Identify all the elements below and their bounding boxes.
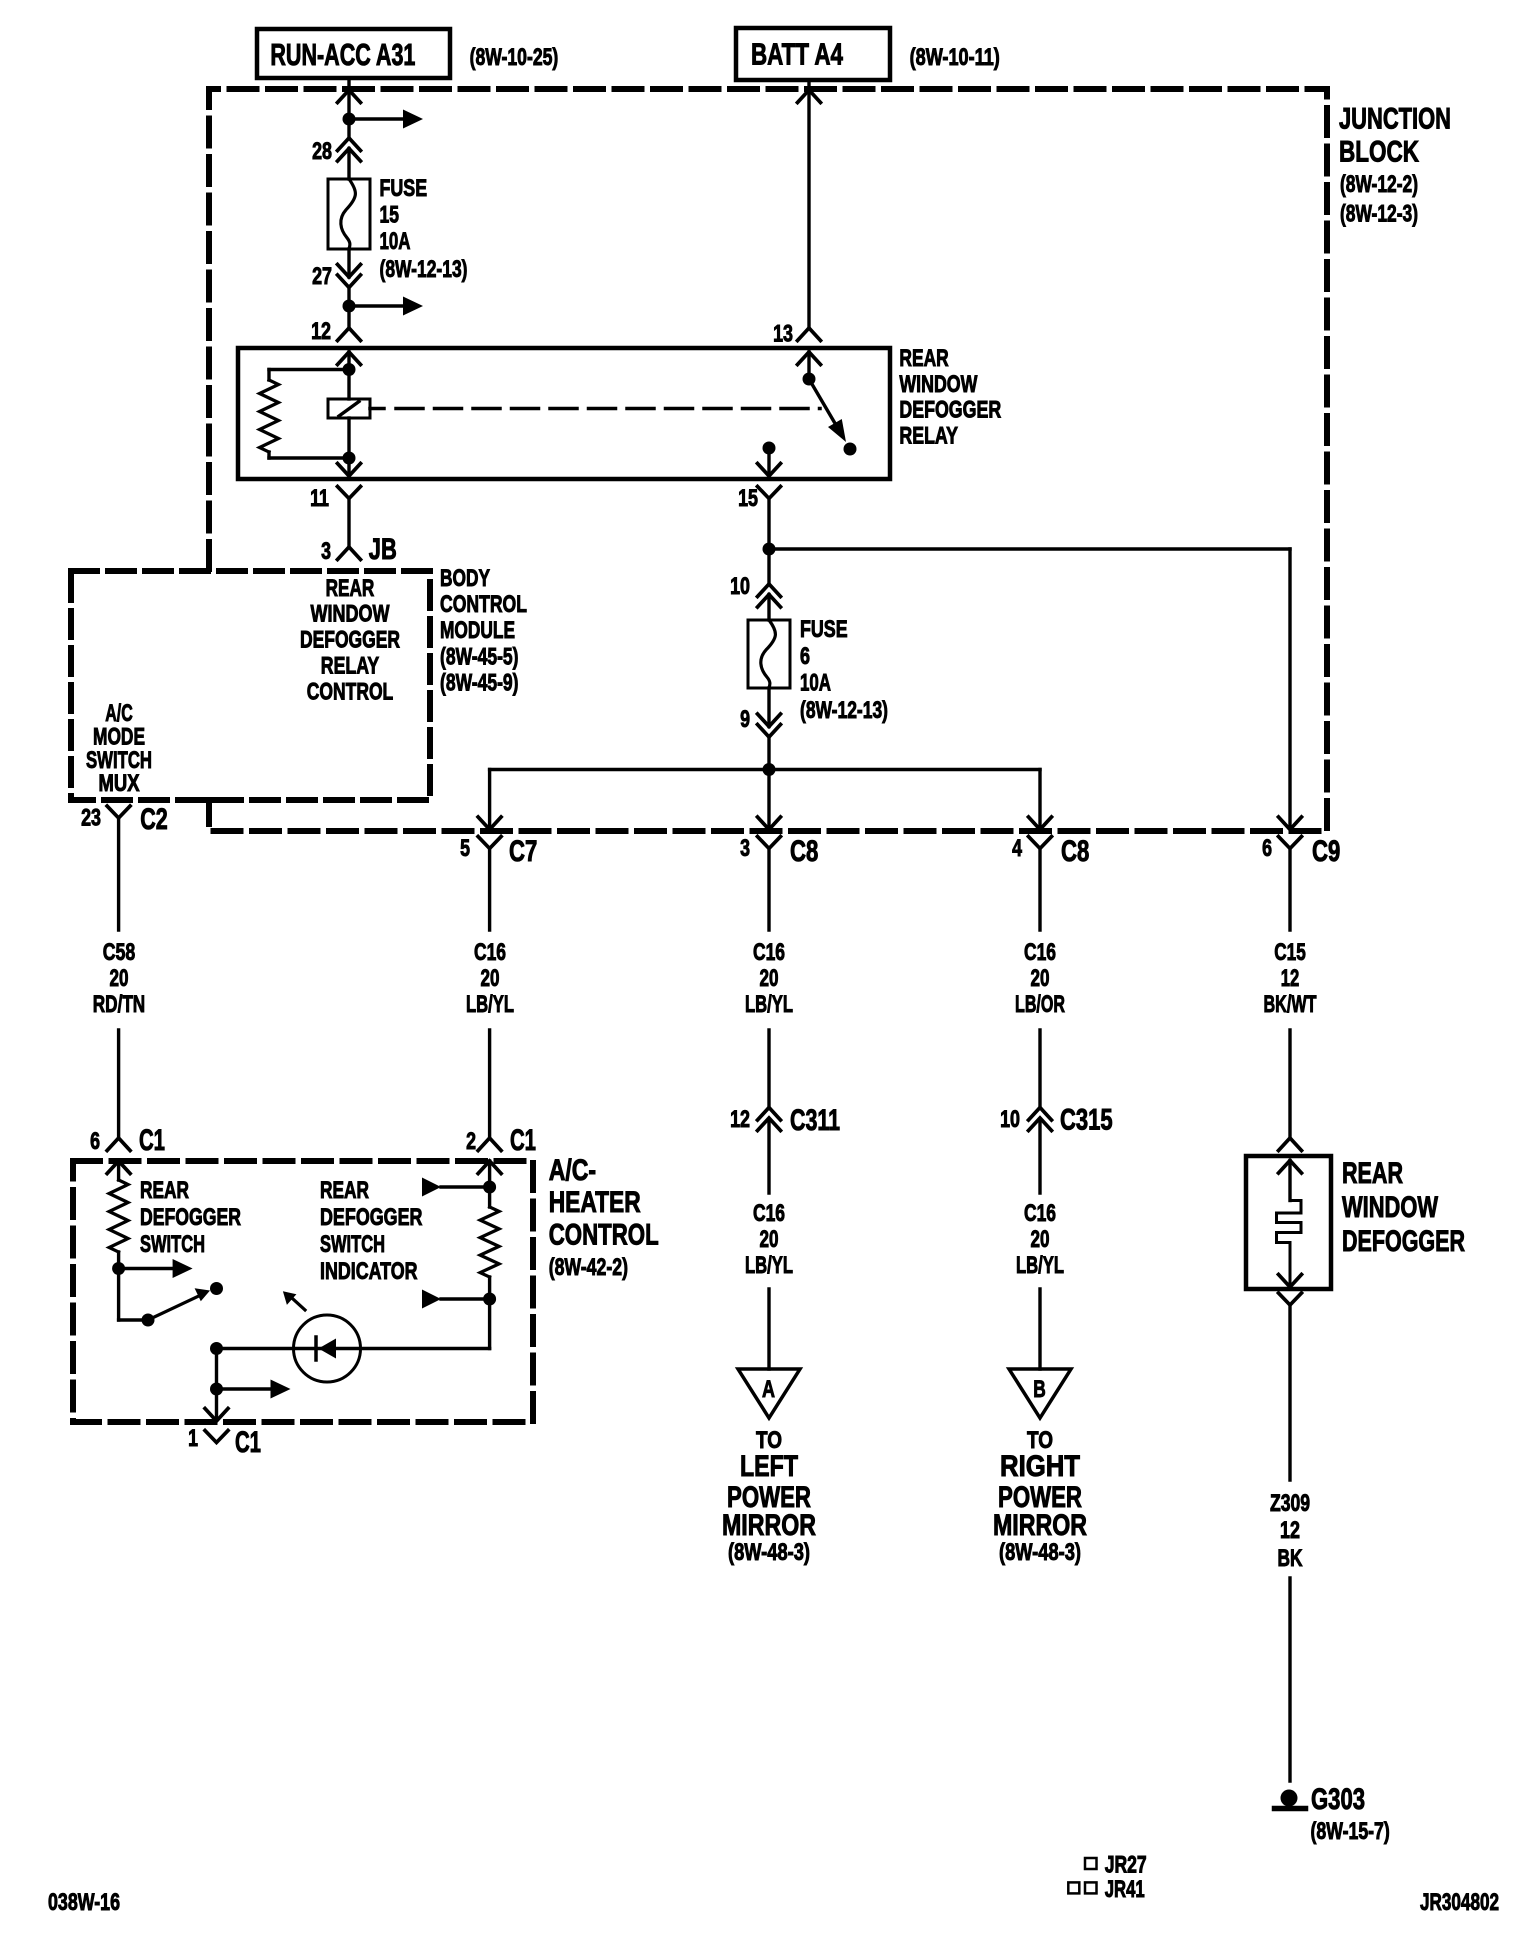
node return splice <box>210 1380 291 1399</box>
wire C2 to A/C heater control <box>117 818 120 1138</box>
relay label <box>899 345 1001 450</box>
svg-text:DEFOGGER: DEFOGGER <box>300 627 400 654</box>
svg-text:20: 20 <box>1031 965 1050 992</box>
pin 2 C1 (male pin) <box>478 1138 501 1151</box>
svg-text:JB: JB <box>369 533 397 566</box>
svg-text:RUN-ACC A31: RUN-ACC A31 <box>270 37 415 72</box>
svg-text:12: 12 <box>311 318 331 345</box>
svg-text:C58: C58 <box>103 939 136 966</box>
svg-text:LB/YL: LB/YL <box>1016 1252 1064 1279</box>
svg-text:A: A <box>762 1376 775 1403</box>
pin 6 C1 (male pin) <box>107 1138 130 1151</box>
svg-text:12: 12 <box>1281 965 1300 992</box>
node relay switch common <box>803 373 816 386</box>
reference (8W-10-25) <box>470 44 559 71</box>
svg-text:C9: C9 <box>1312 835 1340 868</box>
connector C311 (double chevron) <box>758 1108 781 1131</box>
legend JR41 <box>1068 1876 1144 1903</box>
arrow into C7 <box>478 817 501 830</box>
wire fuse 6 to splice <box>767 688 770 827</box>
pin 6 label (C9) <box>1262 835 1272 862</box>
wire relay output to pin 15 <box>767 448 770 476</box>
svg-text:C16: C16 <box>1024 939 1056 966</box>
arrow out of relay pin 15 <box>758 464 781 477</box>
svg-text:20: 20 <box>760 965 779 992</box>
svg-text:C311: C311 <box>790 1104 840 1137</box>
svg-text:13: 13 <box>773 321 793 348</box>
pin 3 label (C8) <box>740 835 750 862</box>
connector name C8 right <box>1061 835 1089 868</box>
svg-text:C16: C16 <box>1024 1200 1056 1227</box>
wire indicator node to LED <box>217 1299 490 1349</box>
rear defogger switch label <box>140 1177 241 1258</box>
wire label C16 20 LB/YL (left mirror) <box>745 1200 793 1279</box>
node LED return <box>210 1342 223 1355</box>
connector 9 (double chevron) <box>758 714 781 737</box>
svg-text:LB/YL: LB/YL <box>745 991 793 1018</box>
node relay coil top <box>343 363 356 376</box>
svg-text:6: 6 <box>800 643 810 670</box>
relay actuation dashed link <box>370 407 820 411</box>
defogger switch blade <box>148 1288 210 1320</box>
pin 12 label <box>311 318 331 345</box>
svg-text:LB/OR: LB/OR <box>1015 991 1065 1018</box>
BCM relay control label <box>300 575 400 706</box>
pin of defogger (male pin) <box>1279 1138 1302 1151</box>
fuse 15 10A <box>328 179 370 249</box>
svg-text:(8W-42-2): (8W-42-2) <box>549 1254 628 1281</box>
reference (8W-10-11) <box>910 44 1000 71</box>
arrow into A/C box pin 6 <box>107 1161 130 1174</box>
BCM name label <box>440 565 527 697</box>
defogger bottom connector (female) <box>1279 1293 1302 1305</box>
pin 15 connector (female) <box>758 487 781 499</box>
svg-text:(8W-12-13): (8W-12-13) <box>800 697 888 724</box>
power feed box BATT A4 <box>736 28 890 80</box>
svg-text:JR41: JR41 <box>1105 1876 1145 1903</box>
ground reference (8W-15-7) <box>1311 1818 1390 1845</box>
svg-text:RELAY: RELAY <box>321 653 379 680</box>
wire pin 13 to switch common <box>807 352 810 379</box>
svg-text:27: 27 <box>312 263 332 290</box>
arrow into RUN-ACC A31 <box>338 90 361 103</box>
svg-text:C8: C8 <box>790 835 818 868</box>
svg-text:10: 10 <box>1000 1106 1020 1133</box>
svg-text:C16: C16 <box>474 939 506 966</box>
wire splice to rear defogger branch <box>769 549 1290 827</box>
svg-text:MIRROR: MIRROR <box>993 1509 1087 1542</box>
svg-text:DEFOGGER: DEFOGGER <box>1342 1225 1465 1258</box>
arrow out of relay pin 11 <box>338 464 361 477</box>
connector 6 C9 (female) <box>1279 837 1302 849</box>
svg-text:REAR: REAR <box>326 575 375 602</box>
body control module box (dashed) <box>71 571 430 800</box>
wire label C16 20 LB/YL (C7) <box>466 939 514 1018</box>
svg-text:MUX: MUX <box>99 770 140 797</box>
pin 10 label <box>730 573 750 600</box>
node relay coil bottom <box>343 452 356 465</box>
svg-text:LEFT: LEFT <box>740 1450 798 1483</box>
svg-text:FUSE: FUSE <box>800 616 848 643</box>
svg-text:LB/YL: LB/YL <box>466 991 514 1018</box>
wire C8-4 to C315 <box>1038 849 1041 1108</box>
off-page connector A <box>738 1369 800 1418</box>
pin 11 connector (female) <box>338 487 361 499</box>
svg-text:CONTROL: CONTROL <box>440 591 527 618</box>
fuse 15 label <box>380 175 468 283</box>
connector 3 C8 (female) <box>758 837 781 849</box>
svg-text:DEFOGGER: DEFOGGER <box>899 397 1001 424</box>
rear defogger switch indicator label <box>320 1177 423 1285</box>
svg-text:C7: C7 <box>509 835 537 868</box>
legend JR27 <box>1085 1852 1147 1879</box>
svg-text:15: 15 <box>380 202 400 229</box>
svg-text:MODULE: MODULE <box>440 617 515 644</box>
arrow into BATT A4 <box>798 90 821 103</box>
pin 13 of relay (male pin) <box>798 328 821 341</box>
wire pin6 to defogger switch <box>117 1161 120 1180</box>
svg-text:C15: C15 <box>1274 939 1306 966</box>
connector 5 C7 (female) <box>478 837 501 849</box>
node switch pivot <box>142 1314 155 1327</box>
svg-text:C2: C2 <box>140 803 168 836</box>
connector name C1 (pin6) <box>139 1124 165 1157</box>
pin 5 label <box>460 835 470 862</box>
svg-text:6: 6 <box>90 1128 100 1155</box>
wire to relay resistor <box>269 370 349 381</box>
wire label C15 12 BK/WT <box>1264 939 1317 1018</box>
svg-text:(8W-10-25): (8W-10-25) <box>470 44 559 71</box>
pin 1 C1 (female) <box>205 1431 228 1443</box>
arrow out of defogger <box>1279 1275 1302 1288</box>
svg-text:WINDOW: WINDOW <box>1342 1191 1438 1224</box>
node indicator bottom <box>483 1293 496 1306</box>
svg-text:REAR: REAR <box>899 345 949 372</box>
arrow into relay pin 12 <box>338 352 361 365</box>
wire label C16 20 LB/YL (right mirror) <box>1016 1200 1064 1279</box>
svg-text:(8W-12-13): (8W-12-13) <box>380 256 468 283</box>
svg-text:B: B <box>1033 1376 1046 1403</box>
svg-text:(8W-12-3): (8W-12-3) <box>1340 201 1418 228</box>
pin 15 label <box>738 485 758 512</box>
relay coil <box>328 370 370 459</box>
off-page connector B <box>1009 1369 1071 1418</box>
wire into defogger grid <box>1288 1161 1291 1201</box>
wire resistor to indicator node <box>488 1277 491 1299</box>
svg-text:9: 9 <box>740 706 750 733</box>
relay switch blade <box>809 379 846 442</box>
svg-text:G303: G303 <box>1311 1783 1365 1816</box>
pin 13 label <box>773 321 793 348</box>
svg-text:INDICATOR: INDICATOR <box>320 1258 418 1285</box>
rear window defogger relay box <box>238 348 890 479</box>
svg-text:(8W-48-3): (8W-48-3) <box>728 1539 810 1566</box>
pin 1 label (C1) <box>188 1425 198 1452</box>
wire switch node down <box>119 1269 148 1321</box>
svg-text:3: 3 <box>321 538 331 565</box>
pin 23 label <box>81 805 101 832</box>
svg-text:(8W-45-5): (8W-45-5) <box>440 644 519 671</box>
svg-text:BK/WT: BK/WT <box>1264 991 1317 1018</box>
ground name G303 <box>1311 1783 1365 1816</box>
rear defogger switch resistor <box>109 1180 128 1252</box>
connector 3 JB (male pin) <box>338 547 361 560</box>
svg-text:BODY: BODY <box>440 565 490 592</box>
svg-text:A/C-: A/C- <box>549 1154 596 1187</box>
fuse 6 10A <box>748 620 790 688</box>
wire coil to pin 11 <box>347 458 350 476</box>
svg-text:038W-16: 038W-16 <box>48 1889 120 1916</box>
svg-text:20: 20 <box>481 965 500 992</box>
svg-text:11: 11 <box>310 485 329 512</box>
svg-text:FUSE: FUSE <box>380 175 428 202</box>
svg-text:20: 20 <box>760 1226 779 1253</box>
svg-text:BLOCK: BLOCK <box>1339 136 1419 169</box>
node splice above relay <box>343 297 424 316</box>
svg-text:C315: C315 <box>1060 1104 1113 1137</box>
node distribution splice <box>763 763 776 776</box>
wire RUN-ACC A31 to fuse 15 <box>347 78 350 179</box>
junction block border (dashed) <box>209 89 1327 831</box>
svg-text:REAR: REAR <box>1342 1157 1403 1190</box>
connector 28 (double chevron) <box>338 138 361 161</box>
wire distribution bus <box>490 768 1040 771</box>
rear window defogger name <box>1342 1157 1465 1258</box>
svg-text:5: 5 <box>460 835 470 862</box>
drawing number JR304802 <box>1420 1889 1499 1916</box>
svg-text:SWITCH: SWITCH <box>140 1231 205 1258</box>
wire LED return down <box>215 1349 218 1390</box>
wire bus to C7 <box>488 770 491 828</box>
to right power mirror label <box>993 1427 1087 1566</box>
wire C315 to right mirror <box>1038 1120 1041 1369</box>
svg-text:REAR: REAR <box>320 1177 369 1204</box>
pin 6 label (C1) <box>90 1128 100 1155</box>
svg-text:REAR: REAR <box>140 1177 189 1204</box>
svg-text:DEFOGGER: DEFOGGER <box>320 1204 423 1231</box>
A/C heater control box (dashed) <box>73 1161 533 1422</box>
pin 28 label <box>312 138 332 165</box>
svg-text:12: 12 <box>730 1106 750 1133</box>
defogger heating grid <box>1277 1201 1302 1286</box>
connector name C9 <box>1312 835 1340 868</box>
wire fuse 15 to relay <box>347 249 350 328</box>
node splice below RUN-ACC <box>343 110 424 129</box>
svg-text:WINDOW: WINDOW <box>899 371 978 398</box>
svg-text:CONTROL: CONTROL <box>549 1219 659 1252</box>
indicator feed arrow top <box>422 1178 490 1197</box>
connector 10 (double chevron) <box>758 584 781 607</box>
junction block label <box>1339 103 1451 228</box>
wire C7 to A/C heater control <box>488 849 491 1139</box>
arrow out of A/C box pin 1 <box>205 1409 228 1422</box>
indicator feed arrow bottom <box>422 1290 490 1309</box>
wire relay pin12 to coil node <box>347 352 350 370</box>
wire C9 to rear window defogger <box>1288 849 1291 1139</box>
svg-text:BK: BK <box>1278 1545 1303 1572</box>
wire bus to C8 pin 4 <box>1038 770 1041 828</box>
connector name C8 left <box>790 835 818 868</box>
connector 4 C8 (female) <box>1029 837 1052 849</box>
svg-text:JR27: JR27 <box>1105 1852 1147 1879</box>
wire pin2 to indicator resistor <box>488 1161 491 1207</box>
connector name C2 <box>140 803 168 836</box>
node splice to C9 branch <box>763 543 776 556</box>
wire C8-3 to C311 <box>767 849 770 1108</box>
connector C315 (double chevron) <box>1029 1108 1052 1131</box>
svg-text:RD/TN: RD/TN <box>93 991 145 1018</box>
node defogger switch <box>112 1259 193 1278</box>
A/C mode switch mux label <box>86 700 152 797</box>
svg-text:HEATER: HEATER <box>549 1186 641 1219</box>
wire pin 15 to fuse 6 <box>767 499 770 621</box>
pin 27 label <box>312 263 332 290</box>
relay suppression resistor <box>260 380 279 452</box>
connector 23 C2 (female) <box>107 806 130 818</box>
svg-text:RIGHT: RIGHT <box>1000 1450 1080 1483</box>
svg-text:3: 3 <box>740 835 750 862</box>
sheet number 038W-16 <box>48 1889 120 1916</box>
svg-text:10A: 10A <box>800 670 831 697</box>
rear window defogger box <box>1246 1156 1331 1289</box>
svg-text:10: 10 <box>730 573 750 600</box>
svg-text:(8W-15-7): (8W-15-7) <box>1311 1818 1390 1845</box>
LED indicator <box>294 1315 361 1382</box>
svg-text:10A: 10A <box>380 228 411 255</box>
pin 12 of relay (male pin) <box>338 328 361 341</box>
svg-text:C16: C16 <box>753 939 785 966</box>
arrow into C9 pin 6 <box>1279 817 1302 830</box>
connector name JB <box>369 533 397 566</box>
wire label Z309 12 BK <box>1270 1490 1310 1572</box>
connector 27 (double chevron) <box>338 265 361 288</box>
connector name C1 (pin1) <box>235 1426 261 1459</box>
svg-text:(8W-48-3): (8W-48-3) <box>999 1539 1081 1566</box>
pin 11 label <box>310 485 329 512</box>
wire return to pin 1 <box>215 1389 218 1420</box>
svg-text:RELAY: RELAY <box>899 423 958 450</box>
wire resistor to switch node <box>117 1252 120 1269</box>
svg-text:LB/YL: LB/YL <box>745 1252 793 1279</box>
wire relay pin 11 to BCM pin 3 <box>347 499 350 548</box>
wire label C16 20 LB/YL (C8 pin3) <box>745 939 793 1018</box>
node indicator top <box>483 1181 496 1194</box>
svg-text:23: 23 <box>81 805 101 832</box>
svg-text:15: 15 <box>738 485 758 512</box>
arrow into C8 pin 3 <box>758 817 781 830</box>
ground G303 <box>1275 1790 1306 1809</box>
node relay output <box>763 442 776 455</box>
svg-text:CONTROL: CONTROL <box>307 679 394 706</box>
node relay switch NO contact <box>844 443 857 456</box>
svg-text:DEFOGGER: DEFOGGER <box>140 1204 241 1231</box>
svg-text:C16: C16 <box>753 1200 785 1227</box>
svg-text:SWITCH: SWITCH <box>320 1231 385 1258</box>
to left power mirror label <box>722 1427 816 1566</box>
arrow into A/C box pin 2 <box>478 1161 501 1174</box>
svg-text:JR304802: JR304802 <box>1420 1889 1499 1916</box>
A/C heater control name <box>549 1154 659 1281</box>
arrow into C8 pin 4 <box>1029 817 1052 830</box>
pin 4 label (C8) <box>1012 835 1022 862</box>
connector name C311 <box>790 1104 840 1137</box>
indicator dropping resistor <box>480 1207 499 1277</box>
wire resistor to coil bottom node <box>269 452 349 458</box>
svg-text:(8W-45-9): (8W-45-9) <box>440 670 519 697</box>
svg-text:(8W-10-11): (8W-10-11) <box>910 44 1000 71</box>
wire label C16 20 LB/OR <box>1015 939 1065 1018</box>
pin 9 label <box>740 706 750 733</box>
svg-text:20: 20 <box>1031 1226 1050 1253</box>
svg-text:1: 1 <box>188 1425 198 1452</box>
node switch contact <box>210 1282 223 1295</box>
svg-text:BATT A4: BATT A4 <box>751 37 844 72</box>
pin 10 label (C315) <box>1000 1106 1020 1133</box>
svg-text:Z309: Z309 <box>1270 1490 1310 1517</box>
connector name C315 <box>1060 1104 1113 1137</box>
svg-text:28: 28 <box>312 138 332 165</box>
svg-text:MIRROR: MIRROR <box>722 1509 816 1542</box>
pin 3 label <box>321 538 331 565</box>
LED emission arrow <box>283 1291 305 1310</box>
svg-text:C1: C1 <box>139 1124 165 1157</box>
connector name C1 (pin2) <box>510 1124 536 1157</box>
wire C311 to left mirror <box>767 1120 770 1369</box>
pin 12 label (C311) <box>730 1106 750 1133</box>
svg-text:WINDOW: WINDOW <box>311 601 391 628</box>
svg-text:C8: C8 <box>1061 835 1089 868</box>
power feed box RUN-ACC A31 <box>257 29 450 78</box>
pin 2 label (C1) <box>466 1128 476 1155</box>
wire BATT A4 to relay pin 13 <box>807 80 810 328</box>
svg-text:6: 6 <box>1262 835 1272 862</box>
svg-text:12: 12 <box>1280 1517 1300 1544</box>
wire defogger to ground <box>1288 1305 1291 1781</box>
fuse 6 label <box>800 616 888 724</box>
svg-text:4: 4 <box>1012 835 1022 862</box>
svg-text:C1: C1 <box>235 1426 261 1459</box>
wire label C58 20 RD/TN <box>93 939 145 1018</box>
svg-text:JUNCTION: JUNCTION <box>1339 103 1451 136</box>
svg-text:(8W-12-2): (8W-12-2) <box>1340 171 1418 198</box>
arrow into defogger <box>1279 1161 1302 1174</box>
svg-text:2: 2 <box>466 1128 476 1155</box>
connector name C7 <box>509 835 537 868</box>
svg-text:C1: C1 <box>510 1124 536 1157</box>
arrow into relay pin 13 <box>798 352 821 365</box>
svg-text:20: 20 <box>110 965 129 992</box>
